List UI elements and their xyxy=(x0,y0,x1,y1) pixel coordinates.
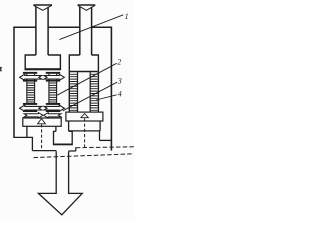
dashed axis left assembly xyxy=(41,124,43,150)
dashed axis right assembly xyxy=(84,118,86,147)
outer frame left edge xyxy=(13,27,15,138)
central support block thick bottom xyxy=(54,144,73,146)
left stud left (hatched) xyxy=(27,74,35,103)
left plate legs xyxy=(27,126,56,137)
right cylinder body walls xyxy=(69,54,98,112)
preload arrow bottom-left (points left) xyxy=(20,105,42,111)
right cylinder inner top line xyxy=(70,71,98,73)
right base plate xyxy=(66,112,103,121)
preload arrow bottom-right (points right) xyxy=(44,105,64,111)
right under-block xyxy=(69,121,101,131)
right plunger column xyxy=(80,7,92,55)
central support block xyxy=(54,131,73,145)
left stud right (hatched) xyxy=(49,74,57,103)
svg-text:1: 1 xyxy=(125,12,129,21)
svg-text:2: 2 xyxy=(117,57,121,66)
left head block xyxy=(25,54,60,70)
dashed line across bottom xyxy=(34,154,135,158)
right cylinder left liner (hatched) xyxy=(70,72,77,112)
dashed line upper right xyxy=(76,146,134,149)
right cylinder right liner (hatched) xyxy=(90,72,97,112)
cut-off margin glyph at left edge xyxy=(0,67,2,72)
svg-text:4: 4 xyxy=(118,89,122,98)
preload arrow top-left (points left) xyxy=(20,74,42,80)
outer frame right edge xyxy=(110,27,112,151)
right funnel triangle xyxy=(78,4,96,6)
right under-block right leg xyxy=(99,131,101,141)
outer frame bottom-left step xyxy=(13,137,56,151)
svg-text:3: 3 xyxy=(117,77,122,86)
inner arrow pair right (points left to axis) xyxy=(44,113,61,118)
outer frame top edge xyxy=(13,26,112,28)
leader line 1 xyxy=(59,15,123,40)
left funnel triangle xyxy=(33,4,52,6)
leader line 2 xyxy=(57,63,116,95)
left plunger column xyxy=(36,7,48,55)
leader line 3 xyxy=(63,82,117,111)
left base support triangle xyxy=(38,119,46,124)
flange plates left stud xyxy=(23,72,37,112)
right base support triangle xyxy=(81,114,88,118)
inner arrow pair left (points right to axis) xyxy=(24,113,43,118)
leader line 4 xyxy=(96,95,116,100)
right step to big arrow xyxy=(69,147,76,151)
output big arrow xyxy=(38,151,82,215)
outer frame bottom-right connector xyxy=(100,139,113,141)
left head block thick bottom xyxy=(25,68,60,70)
flange plates right stud xyxy=(46,72,60,112)
preload arrow top-right (points right) xyxy=(44,74,64,80)
left base plate xyxy=(23,118,61,126)
